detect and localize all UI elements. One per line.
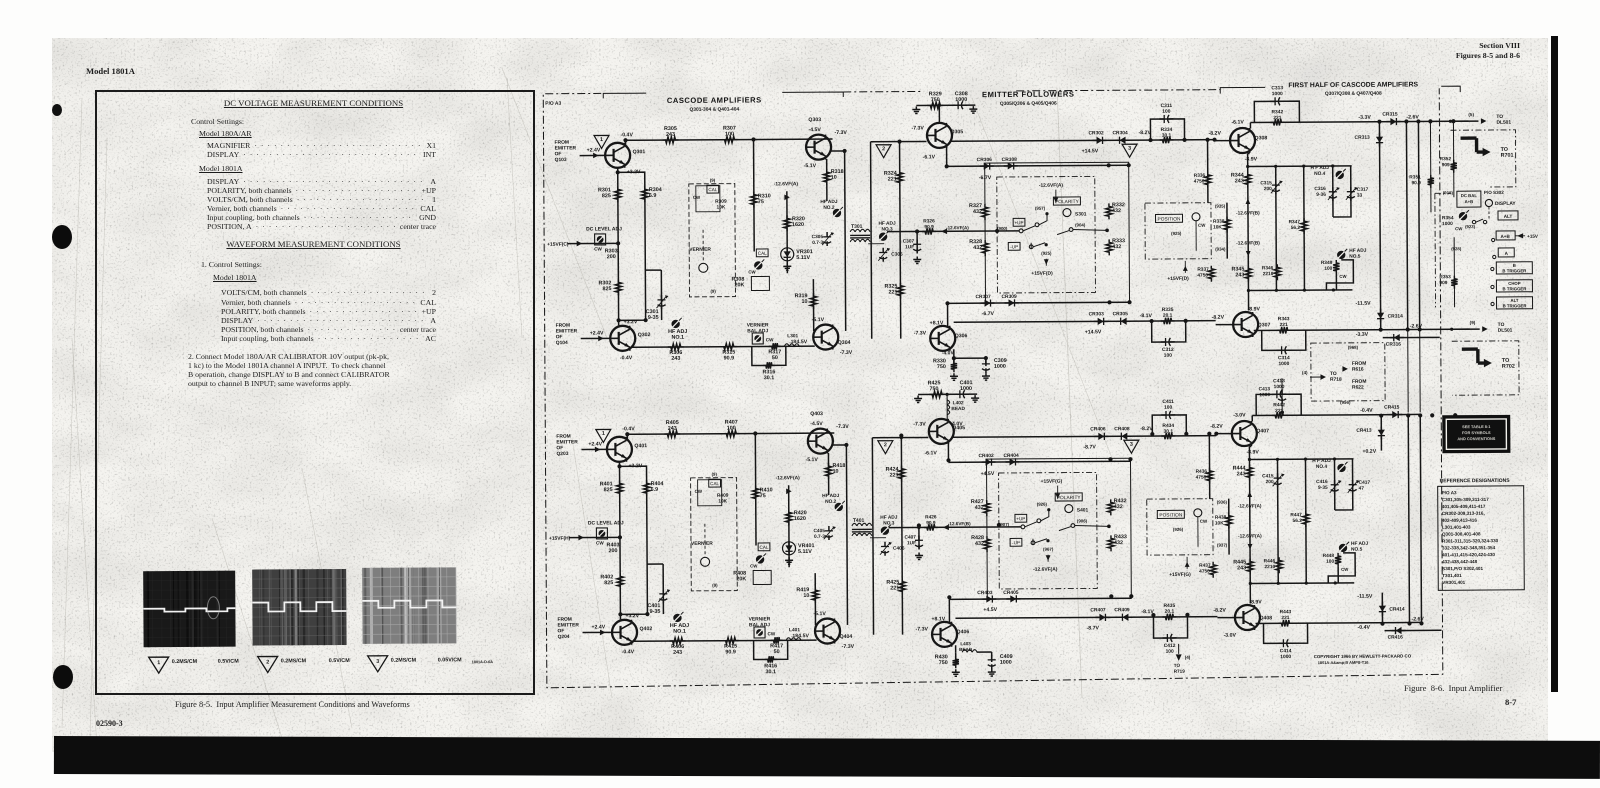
emitter column (1247, 153, 1250, 310)
svg-text:-7.3V: -7.3V (916, 626, 929, 632)
svg-text:-0.4V: -0.4V (1360, 408, 1373, 414)
svg-text:-12.6VF(A): -12.6VF(A) (1238, 533, 1262, 539)
svg-text:VERNIER: VERNIER (747, 322, 769, 328)
svg-text:C311: C311 (1161, 103, 1173, 109)
svg-text:-12.6VF(A): -12.6VF(A) (1033, 567, 1058, 573)
resistor R317 (769, 343, 781, 349)
svg-text:CR402: CR402 (978, 453, 994, 459)
svg-text:VERNIER: VERNIER (691, 541, 713, 547)
svg-text:CR403: CR403 (977, 590, 993, 596)
cap C415 (1276, 459, 1279, 583)
resistor R345 (1245, 265, 1251, 281)
top rail right (951, 140, 1215, 142)
svg-text:(925): (925) (1171, 231, 1182, 236)
svg-text:EMITTER: EMITTER (557, 622, 579, 628)
svg-text:CR416: CR416 (1388, 635, 1404, 641)
transistor Q303 (806, 135, 831, 160)
diode CR304 (1116, 137, 1130, 144)
top rail wire (626, 139, 833, 140)
base lead (1215, 140, 1230, 142)
svg-text:ALT: ALT (1510, 298, 1518, 303)
svg-text:C413: C413 (1259, 386, 1271, 392)
svg-text:1000: 1000 (1442, 221, 1453, 227)
svg-text:750: 750 (931, 97, 940, 103)
svg-text:Q104: Q104 (556, 340, 568, 346)
resistor R425 / cap C401 (918, 393, 977, 395)
svg-text:1000: 1000 (1278, 361, 1289, 367)
svg-text:C312: C312 (1162, 347, 1174, 353)
branch wire R304 (618, 172, 646, 320)
resistor R430 (955, 652, 957, 662)
svg-text:221: 221 (1281, 615, 1289, 621)
svg-text:CR303: CR303 (1089, 311, 1105, 317)
svg-text:CR408: CR408 (1114, 426, 1130, 432)
terminal TO R701 (1461, 138, 1484, 152)
svg-text:-8.9V: -8.9V (1245, 156, 1258, 162)
svg-text:243: 243 (666, 132, 675, 138)
terminal (9) TO DL501 (1450, 328, 1453, 331)
svg-text:1000: 1000 (1280, 654, 1291, 660)
svg-text:S401: S401 (1077, 507, 1089, 513)
input marker triangle 1 (596, 429, 611, 442)
svg-text:(925): (925) (1041, 251, 1052, 256)
svg-text:1620: 1620 (792, 222, 804, 228)
diode CR302 (1093, 137, 1107, 144)
svg-text:R309: R309 (715, 199, 727, 205)
svg-text:B TRIGGER: B TRIGGER (1503, 286, 1528, 291)
svg-text:750: 750 (939, 660, 948, 666)
svg-text:C301,305-309,311-317: C301,305-309,311-317 (1442, 497, 1489, 502)
svg-text:243: 243 (1235, 178, 1244, 184)
svg-text:CR406: CR406 (1090, 426, 1106, 432)
hf5 bracket (1326, 260, 1353, 290)
figure 8-6 caption (1404, 683, 1502, 693)
pot DC LEVEL ADJ (596, 528, 607, 539)
svg-text:(926): (926) (1037, 502, 1048, 507)
resistor R326 (922, 228, 936, 234)
svg-text:POSITION: POSITION (1159, 512, 1182, 518)
badge see table (1442, 415, 1510, 453)
svg-text:Q301: Q301 (633, 149, 646, 155)
svg-text:C405: C405 (813, 528, 825, 534)
svg-text:CW: CW (1341, 567, 1349, 572)
svg-text:243: 243 (1237, 471, 1246, 477)
svg-text:C316: C316 (1314, 186, 1326, 192)
svg-text:30.1: 30.1 (1164, 429, 1174, 435)
wiper feed wire (887, 230, 1019, 233)
svg-text:BAL ADJ: BAL ADJ (749, 622, 770, 628)
resistor R436 (1208, 436, 1210, 499)
cap C413 (1281, 378, 1283, 412)
svg-text:-8.1V: -8.1V (1140, 313, 1153, 319)
resistor R435 (1162, 614, 1176, 620)
svg-text:0.2MS/CM: 0.2MS/CM (391, 658, 417, 664)
svg-text:1000: 1000 (955, 97, 967, 103)
svg-text:200: 200 (609, 548, 618, 554)
wire Q403 emitter (832, 444, 846, 446)
svg-text:R348: R348 (1321, 260, 1333, 266)
svg-text:R352: R352 (1440, 156, 1452, 162)
svg-text:NO.3: NO.3 (883, 520, 895, 526)
hf5 bracket (1328, 553, 1355, 583)
svg-text:(906): (906) (1077, 518, 1088, 523)
wire -12.6 branch (788, 485, 791, 567)
base lead Q307 (1217, 617, 1234, 619)
svg-text:-8.7V: -8.7V (1087, 625, 1100, 631)
svg-text:-4.5V: -4.5V (810, 421, 823, 427)
mid vertical w R324 R325 (901, 438, 902, 635)
resistor R437 (1210, 562, 1216, 578)
svg-text:1801A-D-6A: 1801A-D-6A (472, 660, 494, 664)
cap C414 bridge (1263, 623, 1307, 643)
svg-text:0.5V/CM: 0.5V/CM (329, 658, 351, 664)
trim capacitor C305 (823, 232, 831, 246)
svg-text:2210: 2210 (1263, 271, 1274, 277)
svg-text:Q103: Q103 (555, 157, 567, 163)
svg-text:-0.4V: -0.4V (620, 132, 633, 138)
svg-text:(968): (968) (1348, 345, 1359, 350)
svg-text:CR405: CR405 (1003, 590, 1019, 596)
base lead Q307 (1216, 324, 1233, 326)
svg-text:9-35: 9-35 (648, 315, 659, 321)
svg-text:C414: C414 (1280, 648, 1292, 654)
svg-text:HF ADJ: HF ADJ (878, 221, 896, 227)
svg-text:1000: 1000 (1272, 91, 1283, 97)
resistor R342 (1270, 119, 1284, 125)
svg-text:-0.4V: -0.4V (622, 649, 635, 655)
resistor R438 (1226, 513, 1232, 529)
diode CR404 (1005, 458, 1019, 465)
svg-text:+15VF(G): +15VF(G) (1169, 572, 1191, 578)
svg-text:CR307: CR307 (975, 294, 991, 300)
resistor R348 (1333, 260, 1339, 274)
svg-text:C417: C417 (1359, 480, 1371, 486)
svg-text:H F ADJ: H F ADJ (1312, 458, 1331, 464)
svg-text:CR414: CR414 (1389, 607, 1405, 613)
solid switch box (986, 458, 1131, 599)
svg-text:R443: R443 (1280, 609, 1292, 615)
svg-text:DL501: DL501 (1496, 120, 1511, 126)
svg-text:C306: C306 (891, 252, 903, 258)
diode CR306 (980, 162, 994, 169)
h connector bottom (1250, 582, 1354, 585)
CAL pot 2 (756, 249, 768, 257)
svg-text:221: 221 (888, 289, 897, 295)
top rail wire (627, 433, 834, 434)
svg-text:-7.3V: -7.3V (840, 350, 853, 356)
top border segment a (843, 90, 923, 92)
resistor R416 bridge (754, 640, 788, 659)
figure 8-5 box (95, 90, 535, 695)
vernier dashes (702, 230, 704, 262)
wire Q303 emitter (831, 150, 845, 152)
svg-text:-11.5V: -11.5V (1356, 301, 1372, 307)
svg-text:825: 825 (604, 487, 613, 493)
transistor Q408 (1235, 605, 1260, 630)
svg-text:Q303: Q303 (808, 117, 821, 123)
svg-text:C412: C412 (1164, 643, 1176, 649)
resistor R305 (663, 137, 679, 143)
svg-text:Q305: Q305 (950, 129, 963, 135)
diode CR313 (1379, 122, 1380, 300)
svg-text:CHOP: CHOP (1508, 281, 1521, 286)
svg-text:A+B: A+B (1465, 199, 1474, 204)
svg-text:CAL: CAL (760, 545, 769, 550)
svg-text:COPYRIGHT 1966 BY HEWLETT-PAC: COPYRIGHT 1966 BY HEWLETT-PACKARD CO (1314, 653, 1412, 659)
resistor R402 (617, 573, 623, 589)
svg-text:-8.2V: -8.2V (1212, 315, 1225, 321)
svg-text:10: 10 (833, 469, 839, 475)
wire collector Q401 (626, 434, 628, 439)
svg-text:2: 2 (266, 659, 269, 665)
wire to Q305 collector (938, 105, 940, 122)
svg-text:-0.4V: -0.4V (622, 426, 635, 432)
pot H F ADJ NO.4 (1336, 171, 1344, 179)
marker triangle 3 (1122, 144, 1137, 157)
svg-text:FROM: FROM (1352, 361, 1366, 367)
resistor R330 (953, 358, 955, 368)
vernier inner rect (696, 186, 720, 212)
svg-text:+2.4V: +2.4V (591, 624, 605, 630)
svg-text:Q406: Q406 (957, 629, 970, 635)
A+B box (1496, 231, 1515, 240)
svg-text:100: 100 (1326, 559, 1334, 565)
diode CR315 (1386, 118, 1400, 125)
svg-text:432: 432 (973, 209, 982, 215)
ground below VR (783, 263, 791, 270)
transistor Q406 (932, 622, 957, 647)
resistor R443 (1278, 620, 1292, 626)
svg-text:P/O A3: P/O A3 (1442, 490, 1457, 495)
svg-text:R435: R435 (1164, 603, 1176, 609)
svg-text:909: 909 (1442, 162, 1450, 168)
resistor R334 (1160, 137, 1174, 143)
hf adj no4 branch (1333, 459, 1335, 510)
svg-text:+15VF(H): +15VF(H) (549, 536, 571, 542)
svg-text:CW: CW (750, 563, 758, 568)
resistor R442 (1272, 412, 1286, 418)
svg-text:825: 825 (604, 580, 613, 586)
title bracket left (603, 93, 646, 98)
marker triangle 2 (876, 145, 891, 158)
resistor R351 (1429, 121, 1432, 212)
svg-text:(9): (9) (1470, 320, 1476, 325)
svg-text:CR404: CR404 (1003, 453, 1019, 459)
svg-text:TO: TO (1496, 114, 1503, 120)
svg-text:Q308: Q308 (1255, 135, 1268, 141)
svg-text:432: 432 (975, 505, 984, 511)
diode CR305 (1117, 318, 1131, 325)
zener diode VR301 (781, 248, 794, 261)
svg-text:332-338,342-348,351-354: 332-338,342-348,351-354 (1442, 545, 1496, 550)
POSITION box label (1157, 510, 1184, 518)
trim cap C417 (1349, 480, 1357, 494)
resistor R320 (784, 215, 790, 231)
svg-text:CASCODE AMPLIFIERS: CASCODE AMPLIFIERS (667, 95, 762, 105)
svg-text:B: B (1513, 263, 1516, 268)
emitter column (1248, 446, 1251, 603)
svg-text:100: 100 (727, 425, 736, 431)
h connector top (1249, 458, 1353, 461)
svg-text:HF ADJ: HF ADJ (1351, 541, 1369, 547)
svg-text:-12.6VF(B): -12.6VF(B) (1236, 240, 1260, 246)
trimmer capacitor C401 (662, 564, 664, 614)
vertical wire left column (618, 462, 621, 619)
svg-text:10K: 10K (1215, 520, 1224, 526)
diode CR408 (1117, 433, 1131, 440)
svg-text:R448: R448 (1323, 553, 1335, 559)
wiper feed wire (889, 526, 1021, 529)
svg-text:-7.3V: -7.3V (911, 125, 924, 131)
top rail right block (1252, 414, 1420, 415)
svg-text:FOR SYMBOLS: FOR SYMBOLS (1462, 430, 1491, 435)
position pot (1194, 509, 1202, 517)
cap C313 bridge (1254, 101, 1299, 122)
svg-text:3: 3 (1128, 146, 1131, 152)
svg-text:50: 50 (772, 355, 778, 361)
wire -12.6 branch (786, 191, 789, 273)
svg-text:Q302: Q302 (638, 332, 651, 338)
transistor Q301 (605, 143, 630, 168)
svg-text:-12.6VF(B): -12.6VF(B) (1236, 210, 1260, 216)
resistor R432 (1108, 499, 1114, 515)
svg-text:(936): (936) (1217, 500, 1228, 505)
CHOP TRIGGER box (1496, 280, 1532, 292)
svg-text:200: 200 (1266, 479, 1274, 485)
resistor R306 (668, 344, 684, 350)
svg-text:(9): (9) (712, 583, 718, 588)
svg-text:R409: R409 (717, 493, 729, 499)
diode CR406 (1094, 433, 1108, 440)
wire EF base rail (871, 140, 927, 142)
-UP box (1010, 538, 1022, 546)
svg-text:-6.1V: -6.1V (924, 450, 937, 456)
resistor R327 (982, 204, 988, 220)
solid switch box (985, 162, 1130, 303)
long vertical 2 (1420, 414, 1421, 622)
svg-text:825: 825 (602, 193, 611, 199)
svg-text:R326: R326 (923, 218, 935, 224)
svg-text:-3.0V: -3.0V (1233, 412, 1246, 418)
resistor R420 (786, 509, 792, 525)
svg-text:401-411,415-420,424-430: 401-411,415-420,424-430 (1442, 552, 1495, 557)
svg-text:CR316: CR316 (1386, 342, 1402, 348)
svg-text:+8.1V: +8.1V (931, 616, 945, 622)
svg-text:NO.5: NO.5 (1349, 254, 1361, 260)
wire Q306 emitter (947, 303, 949, 327)
svg-text:FROM: FROM (556, 323, 570, 329)
svg-text:Q304: Q304 (838, 340, 851, 346)
svg-text:C317: C317 (1357, 187, 1369, 193)
svg-text:243: 243 (673, 650, 682, 656)
svg-text:C315: C315 (1260, 180, 1272, 186)
svg-text:243: 243 (668, 426, 677, 432)
svg-text:0.7-3: 0.7-3 (812, 240, 823, 246)
terminal TO R702 (1462, 349, 1485, 363)
svg-text:Q403: Q403 (810, 411, 823, 417)
svg-text:CW: CW (693, 195, 701, 200)
svg-text:1000: 1000 (960, 386, 972, 392)
svg-text:CR415: CR415 (1384, 405, 1400, 411)
diode CR308 (1004, 162, 1018, 169)
POLARITY box (1053, 197, 1080, 205)
transistor Q407 (1232, 421, 1257, 446)
svg-text:221: 221 (890, 472, 899, 478)
svg-text:100: 100 (1324, 266, 1332, 272)
resistor R328 (982, 240, 988, 256)
mid vertical w R324 R325 (900, 142, 901, 339)
wire Q305 emitter (947, 442, 949, 462)
left tall wire (871, 142, 872, 339)
svg-text:+2.4V: +2.4V (590, 330, 604, 336)
svg-text:CR315: CR315 (1382, 112, 1398, 118)
switch sel contacts (1472, 220, 1475, 223)
svg-text:REFERENCE DESIGNATIONS: REFERENCE DESIGNATIONS (1440, 478, 1511, 484)
svg-text:30.1: 30.1 (766, 669, 777, 675)
svg-text:HF ADJ: HF ADJ (880, 515, 898, 521)
resistor R448 (1335, 553, 1341, 567)
switch contacts (1021, 525, 1025, 529)
svg-text:CR413: CR413 (1356, 428, 1372, 434)
bottom rail right block (1255, 622, 1421, 623)
svg-text:C406: C406 (893, 546, 905, 552)
resistor R316 bridge (752, 346, 786, 365)
svg-text:90.9: 90.9 (1411, 180, 1421, 186)
resistor R333 (1106, 239, 1112, 255)
trim cap C317 (1347, 187, 1355, 201)
svg-text:(918): (918) (1443, 190, 1454, 195)
position feed (1197, 517, 1199, 547)
svg-text:100: 100 (1162, 109, 1170, 115)
right film edge bar (1551, 36, 1558, 692)
svg-text:CR308: CR308 (1002, 157, 1018, 163)
svg-text:DL501: DL501 (1498, 328, 1513, 334)
svg-text:+15V: +15V (1527, 234, 1539, 239)
svg-text:1000: 1000 (1000, 660, 1012, 666)
svg-text:50: 50 (774, 649, 780, 655)
svg-text:+15VF(D): +15VF(D) (1167, 276, 1189, 282)
svg-text:BAL ADJ: BAL ADJ (747, 328, 768, 334)
svg-text:56.2: 56.2 (1293, 518, 1303, 524)
svg-text:(9): (9) (710, 178, 716, 183)
svg-text:-8.7V: -8.7V (1083, 444, 1096, 450)
trim capacitor C306 (879, 248, 887, 262)
cap C413 bridge (1256, 394, 1301, 415)
wire T301 area (844, 207, 846, 220)
svg-text:CR407: CR407 (1090, 607, 1106, 613)
svg-text:(935): (935) (1215, 204, 1226, 209)
svg-text:NO.4: NO.4 (1314, 171, 1326, 177)
diode CR414 (1381, 593, 1383, 623)
svg-text:432: 432 (1114, 540, 1123, 546)
svg-text:750: 750 (937, 364, 946, 370)
pot VERNIER BAL ADJ (754, 627, 765, 638)
vernier pot circle (701, 557, 710, 566)
svg-text:432-438,442-448: 432-438,442-448 (1442, 559, 1477, 564)
diode CR416 (1392, 627, 1406, 634)
resistor R319 (812, 279, 814, 331)
svg-text:HF ADJ: HF ADJ (822, 493, 840, 499)
waveform photo 3 (143, 571, 235, 648)
svg-text:-12.6VF(A): -12.6VF(A) (774, 181, 799, 187)
pot HF ADJ NO.5 (1339, 544, 1347, 552)
box top edge wire (947, 165, 1129, 166)
svg-text:R436: R436 (1196, 469, 1208, 475)
svg-text:R335: R335 (1162, 307, 1174, 313)
transistor Q402 (612, 620, 637, 645)
resistor R301 (615, 186, 621, 202)
POSITION box label (1155, 214, 1182, 222)
